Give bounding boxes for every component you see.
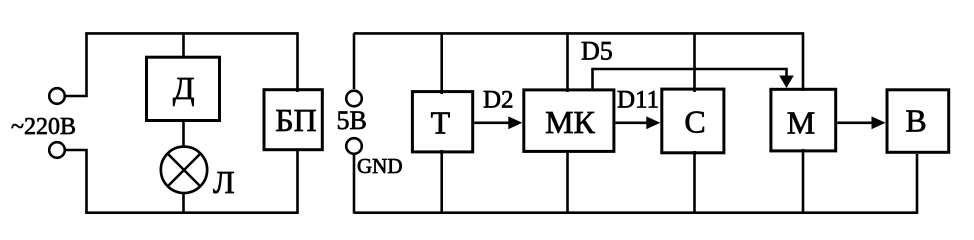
svg-text:БП: БП [275,102,316,138]
svg-text:МК: МК [545,104,595,140]
svg-text:GND: GND [357,154,403,178]
svg-text:С: С [684,104,705,140]
wire [65,150,87,213]
svg-text:5В: 5В [337,106,367,135]
wire arrow М to В [837,116,885,129]
terminal X1 (top input) [49,88,65,104]
wire (С top stub) [693,33,696,92]
wire (Д top stub) [182,33,185,56]
terminal 5В [346,91,362,107]
terminal X2 (bottom input) [49,142,65,158]
svg-text:D2: D2 [483,87,514,114]
block БП (power supply) [264,90,322,150]
svg-text:D11: D11 [617,87,659,114]
wire (lamp to bottom bus) [182,193,185,213]
wire (МК bottom stub) [566,150,569,213]
wire (Т top stub) [440,33,443,94]
block Д (sensor) [147,57,220,120]
svg-text:М: М [787,105,815,141]
wire (С bottom stub) [693,151,696,213]
wire arrow МК to С [615,116,660,129]
block С (comparator) [662,89,724,153]
svg-text:Д: Д [173,70,195,106]
wire (МК top stub) [566,33,569,92]
svg-text:В: В [905,103,926,139]
block МК (microcontroller) [524,90,614,151]
block Т (timer) [412,92,472,152]
wire (Т bottom stub) [440,150,443,213]
wire (GND terminal to bottom bus) [353,155,356,213]
svg-text:Л: Л [213,164,235,200]
wire (М bottom stub) [802,149,805,213]
wire (Д to lamp) [182,122,185,147]
wire [65,33,87,96]
wire (top bus, right section) [354,33,803,91]
wire (top bus, left section) [85,33,297,92]
wire D5 (МК top to М top) with arrow [593,69,794,91]
svg-text:Т: Т [431,105,451,141]
wire arrow Т to МК [474,116,522,129]
block В (output) [887,90,949,153]
svg-text:D5: D5 [581,37,613,66]
lamp Л [161,147,207,193]
wire (bottom bus, right section) [354,154,917,213]
wire (5В terminal to top bus) [353,33,356,89]
wire (bottom bus, left section) [85,151,297,213]
svg-text:~220В: ~220В [11,114,76,140]
terminal GND [346,138,362,154]
block М (motor driver) [771,89,836,151]
